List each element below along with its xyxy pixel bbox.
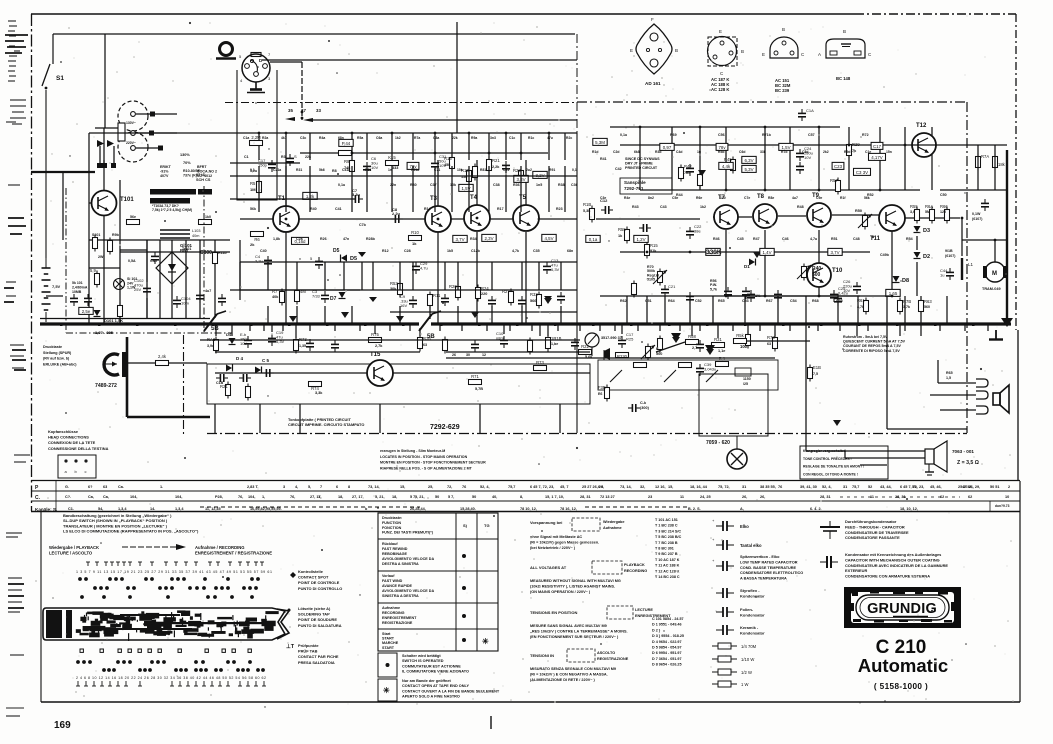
- value label 1,8k: [273, 237, 280, 241]
- label R31v: [718, 349, 725, 353]
- label R21v: [492, 165, 500, 169]
- svg-text:B: B: [843, 29, 846, 34]
- svg-text:R12: R12: [382, 249, 389, 253]
- svg-text:Spitzenwertkon - Elko: Spitzenwertkon - Elko: [740, 555, 780, 559]
- capacitor C105: [84, 294, 92, 306]
- voltage label 6,3V: [742, 156, 756, 163]
- svg-text:(ALIMENTAZIONE DI RETE / 220: (ALIMENTAZIONE DI RETE / 220V~ ): [530, 678, 596, 682]
- outer foil capacitor symbol: [820, 556, 838, 568]
- band row3 extra: [900, 507, 918, 511]
- svg-text:TRAM-049: TRAM-049: [982, 287, 1001, 291]
- band row1 numbers: [962, 485, 973, 489]
- value label C48: [853, 237, 860, 241]
- label R73bv: [299, 344, 306, 348]
- svg-text:18k: 18k: [998, 162, 1006, 167]
- pin number row bottom: [76, 676, 266, 680]
- filter choke L101: [160, 229, 200, 238]
- capacitor C24c: [796, 162, 804, 174]
- diode D7: [339, 292, 346, 299]
- label F3Bv: [598, 392, 602, 396]
- svg-text:(Ri = 10kΩ/V ) E CON NEGATIVO: (Ri = 10kΩ/V ) E CON NEGATIVO A MASSA.: [530, 673, 608, 677]
- package label AC187K: [711, 77, 729, 92]
- junction: [488, 152, 491, 155]
- wire rail drop: [309, 133, 311, 160]
- svg-text:R20: R20: [449, 284, 457, 289]
- label 9-1B: [945, 249, 953, 253]
- svg-text:B: B: [782, 27, 785, 32]
- label C5b: [262, 358, 270, 363]
- note2 box label1: [624, 563, 645, 567]
- wire amp to bus: [886, 296, 888, 324]
- svg-text:4,4k: 4,4k: [722, 164, 731, 169]
- svg-text:40k: 40k: [272, 295, 279, 299]
- resistor R49: [698, 172, 703, 189]
- diode list: [652, 617, 684, 667]
- svg-text:16V: 16V: [400, 303, 407, 308]
- capacitor C29: [412, 261, 428, 274]
- texture label amp2: [720, 196, 726, 200]
- value label C49b: [880, 253, 890, 257]
- arrow marker: [698, 170, 706, 176]
- record board frame: [207, 364, 590, 404]
- svg-text:C-k: C-k: [640, 401, 647, 405]
- bus tick: [659, 324, 661, 331]
- svg-text:220: 220: [481, 292, 487, 296]
- texture label top: [376, 136, 382, 140]
- note1 box label1: [603, 520, 625, 524]
- transistor T11: [870, 205, 905, 242]
- svg-text:2,5e: 2,5e: [82, 309, 91, 314]
- band row3 numbers: [688, 507, 701, 511]
- svg-text:10V: 10V: [371, 165, 378, 170]
- capacitor E-b: [240, 332, 252, 348]
- svg-text:TONE CONTROL PRECEDES !: TONE CONTROL PRECEDES !: [803, 457, 852, 461]
- band row2 extra: [130, 495, 137, 499]
- feedthrough ground symbol: [820, 521, 840, 539]
- band row2 numbers: [820, 495, 831, 499]
- svg-text:6 45 7, 72, 23,: 6 45 7, 72, 23,: [900, 485, 924, 489]
- band row3 numbers: [250, 507, 282, 511]
- resistor legend 3: [712, 669, 752, 675]
- board frame bottom: [207, 433, 967, 435]
- texture label amp2: [624, 196, 630, 200]
- svg-text:C35: C35: [533, 249, 540, 253]
- wire rail drop: [434, 133, 436, 160]
- wire to bus: [429, 306, 431, 324]
- svg-text:5,: 5,: [308, 485, 311, 489]
- capacitor Ck: [628, 404, 640, 412]
- svg-text:68n: 68n: [567, 249, 573, 253]
- elko symbol: [712, 518, 734, 531]
- band row1 extra: [958, 485, 980, 489]
- test point squares row: [80, 649, 251, 652]
- band row2 numbers: [248, 495, 255, 499]
- band row3 extra: [68, 507, 74, 511]
- selector contact squares: [149, 112, 163, 151]
- svg-text:R50: R50: [855, 209, 862, 213]
- amplifier frame right: [966, 102, 968, 433]
- band row2 numbers: [600, 495, 615, 499]
- svg-text:560: 560: [924, 305, 930, 309]
- svg-text:C21a: C21a: [273, 168, 281, 172]
- capacitor C33: [518, 296, 526, 308]
- signal line top: [262, 59, 577, 61]
- svg-text:E: E: [719, 29, 722, 34]
- resistor R,1: [716, 356, 729, 367]
- legend box asterisk: [378, 679, 397, 701]
- preamp rail stub: [230, 162, 300, 164]
- voltage label 3,7V: [828, 248, 842, 255]
- wire mains drop: [62, 172, 64, 240]
- label E1Bv: [813, 372, 818, 376]
- band divider: [55, 481, 57, 512]
- value label 56k: [250, 207, 256, 211]
- band row1 numbers: [88, 485, 93, 489]
- svg-text:27, 17,: 27, 17,: [310, 495, 322, 499]
- output frame: [699, 374, 768, 436]
- svg-text:52: 52: [868, 485, 872, 489]
- bus tick: [309, 324, 311, 331]
- diode D6: [255, 367, 262, 374]
- psu frame left: [65, 188, 67, 333]
- svg-text:C1: C1: [244, 155, 249, 159]
- band row2 numbers: [448, 495, 454, 499]
- psu value R9b: [112, 233, 120, 237]
- diode D2: [914, 252, 931, 260]
- svg-text:1,3,4: 1,3,4: [175, 507, 184, 511]
- band row3 extra: [560, 507, 577, 511]
- keramik label: [740, 625, 765, 635]
- wire bus drop: [920, 324, 922, 336]
- wire bus drop: [231, 324, 233, 336]
- value label C36: [571, 183, 578, 187]
- page border left: [31, 14, 33, 511]
- bridge rectifier GL101: [156, 240, 188, 318]
- capacitor C22: [686, 224, 702, 239]
- note2 text: [530, 579, 621, 594]
- wire drop dashed: [301, 62, 303, 120]
- svg-text:D 6 9954 - 951.97: D 6 9954 - 951.97: [652, 651, 682, 655]
- svg-text:R91: R91: [549, 168, 555, 172]
- svg-text:R5k: R5k: [736, 333, 744, 338]
- quiescent note: [843, 335, 906, 353]
- bus tick: [987, 324, 989, 331]
- texture label top2: [342, 168, 350, 172]
- preamp top rail: [89, 132, 577, 134]
- voltage label C23: [832, 162, 844, 169]
- svg-text:Aufnahme: Aufnahme: [603, 526, 622, 530]
- svg-text:C3 3V: C3 3V: [856, 170, 868, 175]
- svg-text:33k: 33k: [760, 150, 766, 154]
- resistor R55b: [910, 204, 920, 224]
- svg-text:Kopfanschlüsse: Kopfanschlüsse: [48, 429, 79, 434]
- svg-text:14.: 14.: [150, 507, 155, 511]
- svg-text:50: 50: [472, 495, 476, 499]
- wire output drop: [805, 374, 807, 451]
- capacitor C58: [981, 199, 989, 211]
- bus tick: [839, 324, 841, 331]
- svg-text:2,2k: 2,2k: [492, 165, 500, 169]
- svg-text:C37: C37: [430, 183, 437, 187]
- tone note text: [803, 449, 864, 476]
- band row2 numbers: [742, 495, 747, 499]
- resistor R21: [487, 157, 501, 174]
- subboard frame: [620, 178, 672, 194]
- table row2 text: [382, 574, 434, 598]
- band row2 numbers: [415, 495, 425, 499]
- wire rail drop 2: [391, 166, 393, 212]
- direction arrow: [122, 544, 186, 550]
- resistor R45: [724, 157, 736, 174]
- svg-text:R8e: R8e: [768, 196, 774, 200]
- svg-text:1150: 1150: [743, 377, 751, 381]
- svg-text:Stellung (SPUR): Stellung (SPUR): [43, 351, 72, 355]
- wire bus drop: [747, 324, 749, 334]
- texture label top: [319, 136, 325, 140]
- svg-text:(Ri = 10kΩ/V) gegen Masse g: (Ri = 10kΩ/V) gegen Masse gemessen.: [530, 541, 599, 545]
- lower rail 1: [200, 339, 580, 341]
- note2 head: [530, 565, 567, 570]
- value label R44: [676, 193, 683, 197]
- table row4 asterisk: [482, 637, 489, 646]
- value label 4,7k: [512, 249, 519, 253]
- band row1 numbers: [655, 485, 666, 489]
- table row divider: [378, 570, 498, 572]
- capacitor C63: [571, 338, 579, 350]
- texture label top2: [365, 168, 371, 172]
- svg-text:24, 25: 24, 25: [700, 495, 711, 499]
- playback label: [49, 545, 99, 550]
- svg-text:Ca.: Ca.: [118, 485, 124, 489]
- value label C46: [782, 237, 789, 241]
- pcb strip outline: [43, 608, 285, 640]
- svg-text:5,7k: 5,7k: [710, 287, 717, 291]
- svg-text:73, 14,: 73, 14,: [368, 485, 380, 489]
- capacitor C68: [834, 294, 842, 306]
- voltage label 0,1a: [586, 235, 600, 242]
- svg-text:BFRT: BFRT: [197, 165, 207, 169]
- svg-text:76,: 76,: [290, 495, 295, 499]
- svg-text:REBOBINAGE: REBOBINAGE: [382, 552, 408, 556]
- svg-text:RIAPRESE NELLE POS. - S OP AL: RIAPRESE NELLE POS. - S OP ALIMENTAZIONE…: [380, 466, 473, 470]
- svg-text:R64: R64: [668, 299, 675, 303]
- svg-text:R11: R11: [433, 293, 441, 298]
- svg-text:R7a: R7a: [414, 136, 420, 140]
- capacitor C9: [400, 294, 417, 308]
- svg-text:R23: R23: [556, 207, 563, 211]
- board drop: [559, 404, 561, 433]
- bus tick: [359, 324, 361, 331]
- svg-text:0,1u: 0,1u: [620, 133, 627, 137]
- transistor T15: [367, 352, 393, 386]
- svg-text:C1.: C1.: [68, 507, 74, 511]
- mains diodes: [97, 140, 114, 147]
- svg-text:1k2: 1k2: [395, 136, 401, 140]
- wire L1 feed: [961, 218, 963, 256]
- svg-text:5, 21,: 5, 21,: [415, 495, 425, 499]
- label D7: [330, 296, 337, 302]
- svg-text:169: 169: [54, 720, 71, 731]
- svg-text:PUNTO DI SALDATURA: PUNTO DI SALDATURA: [298, 623, 342, 628]
- wire collector up: [285, 160, 287, 207]
- value label R65: [718, 299, 725, 303]
- resistor E1B: [808, 365, 822, 382]
- resistor R21b: [220, 382, 231, 399]
- texture label top2: [250, 168, 255, 172]
- texture label amp: [718, 150, 724, 154]
- input selector frame: [237, 70, 277, 200]
- wire rail drop: [548, 133, 550, 160]
- band row2 numbers: [940, 495, 944, 499]
- svg-text:C3c: C3c: [300, 136, 306, 140]
- svg-text:C43: C43: [660, 205, 667, 209]
- svg-text:GRUNDIG: GRUNDIG: [867, 601, 937, 617]
- texture label top: [338, 136, 344, 140]
- svg-text:5 7,: 5 7,: [448, 495, 454, 499]
- svg-text:C41a: C41a: [342, 168, 350, 172]
- note4 box: [567, 649, 595, 662]
- texture label top2: [411, 168, 419, 172]
- resistor R29: [847, 142, 861, 159]
- svg-text:MONTRE EN POSITION - STOP FON: MONTRE EN POSITION - STOP FONCTIONNEMENT…: [380, 461, 486, 465]
- svg-text:1,3,4: 1,3,4: [118, 507, 127, 511]
- svg-text:10k: 10k: [457, 168, 463, 172]
- svg-text:S): S): [463, 523, 468, 528]
- svg-text:R51: R51: [365, 168, 371, 172]
- svg-text:C?.: C?.: [65, 495, 71, 499]
- label D4: [236, 356, 244, 361]
- transistor package AD161 outline: [630, 17, 678, 74]
- svg-text:10MB: 10MB: [72, 290, 82, 294]
- capacitor C104: [173, 296, 191, 308]
- svg-text:erzeugen in Stellung - Slim: erzeugen in Stellung - Slim Monteur-M: [380, 449, 445, 453]
- junction: [639, 126, 642, 129]
- capacitor C21: [661, 284, 676, 297]
- label 7292-791: [624, 180, 646, 191]
- contact spot marker: [290, 572, 296, 578]
- wire T101 emitter: [103, 216, 105, 324]
- pcb strip left block: [46, 610, 72, 638]
- svg-text:(10kΩ RESISTIVITY ), LISTED A: (10kΩ RESISTIVITY ), LISTED AGAINST MAIN…: [530, 585, 615, 589]
- texture label amp: [592, 150, 598, 154]
- svg-text:68n: 68n: [338, 136, 344, 140]
- svg-text:ENREGISTREMENT: ENREGISTREMENT: [382, 616, 417, 620]
- junction: [520, 152, 523, 155]
- stub2: [844, 451, 846, 458]
- voltage label 4,17V: [869, 153, 886, 160]
- svg-text:22k: 22k: [452, 136, 458, 140]
- resistor board: [634, 363, 647, 368]
- psu label sch: [196, 178, 211, 182]
- wire preamp mesh: [372, 262, 374, 290]
- texture label top2: [503, 168, 509, 172]
- value label C37: [430, 183, 437, 187]
- svg-text:2,4k: 2,4k: [158, 354, 167, 359]
- label R53v: [390, 287, 397, 291]
- label R73cv: [767, 342, 771, 346]
- resistor R76: [418, 335, 432, 352]
- band row1 extra: [852, 485, 859, 489]
- texture label top2: [457, 168, 463, 172]
- band row3 numbers: [460, 507, 476, 511]
- svg-text:c: c: [85, 469, 87, 474]
- svg-text:CONNESSIONE DELLA TESTINA: CONNESSIONE DELLA TESTINA: [48, 446, 109, 451]
- band row3 numbers: [175, 507, 184, 511]
- wire to bus: [560, 306, 562, 324]
- svg-text:Ruhestrom - 5mA bei 7,5V: Ruhestrom - 5mA bei 7,5V: [843, 335, 888, 339]
- value label C35: [533, 249, 540, 253]
- svg-text:Start: Start: [382, 632, 391, 636]
- wire amp drop: [789, 127, 791, 190]
- bus tick: [509, 324, 511, 331]
- svg-text:R10: R10: [411, 230, 419, 235]
- svg-text:566: 566: [530, 299, 536, 303]
- wire speaker 1: [806, 450, 925, 452]
- resistor R73: [534, 360, 547, 371]
- band row1 numbers: [428, 485, 433, 489]
- texture label amp2: [696, 196, 702, 200]
- label R56: [710, 279, 717, 291]
- wire board out: [393, 372, 590, 374]
- amp rail 4: [600, 295, 860, 297]
- svg-text:38 35 55,: 38 35 55,: [760, 485, 776, 489]
- svg-text:6: 6: [336, 485, 338, 489]
- note4 head: [530, 653, 554, 658]
- selector wire 3: [136, 147, 162, 149]
- svg-text:C4d: C4d: [676, 150, 682, 154]
- bus tick: [637, 324, 639, 331]
- svg-text:POINT DE CONTROLE: POINT DE CONTROLE: [298, 580, 340, 585]
- svg-text:R55: R55: [910, 204, 918, 209]
- svg-text:C57: C57: [808, 133, 815, 137]
- svg-text:7: 7: [320, 485, 322, 489]
- wire rail drop 2: [505, 166, 507, 212]
- svg-text:63: 63: [767, 342, 771, 346]
- svg-text:R81: R81: [480, 168, 486, 172]
- band row3 numbers: [520, 507, 537, 511]
- junction: [476, 217, 479, 220]
- package label AC151: [775, 78, 791, 93]
- junction: [391, 132, 394, 135]
- label R70b: [656, 347, 663, 351]
- band row1 numbers: [295, 485, 298, 489]
- band row2 extra: [760, 495, 765, 499]
- ground mid-1: [671, 333, 681, 341]
- psu value 56e: [130, 215, 136, 219]
- band row2 numbers: [700, 495, 711, 499]
- legend box dot: [378, 653, 397, 677]
- speaker output: [925, 441, 947, 475]
- wire preamp mesh: [444, 262, 446, 290]
- band divider2: [989, 501, 991, 512]
- svg-text:1.: 1.: [160, 485, 163, 489]
- texture label top2: [526, 168, 532, 172]
- label 6107: [945, 254, 956, 258]
- svg-text:LS ELCO DI COMMUTAZIONE (RAP: LS ELCO DI COMMUTAZIONE (RAPPRESENTATO I…: [63, 529, 199, 534]
- svg-text:D5: D5: [350, 256, 357, 262]
- svg-text:R5d: R5d: [718, 150, 724, 154]
- capacitor C25: [742, 287, 750, 299]
- svg-text:R3: R3: [281, 155, 286, 159]
- svg-text:18,: 18,: [392, 495, 397, 499]
- svg-text:( 5158-1000 ): ( 5158-1000 ): [874, 682, 928, 691]
- junction: [818, 126, 821, 129]
- svg-text:7292-791: 7292-791: [624, 186, 644, 191]
- svg-text:56e: 56e: [130, 215, 136, 219]
- svg-text:R26: R26: [320, 237, 327, 241]
- wire amp emitter drop: [891, 230, 893, 296]
- value label C1: [244, 155, 249, 159]
